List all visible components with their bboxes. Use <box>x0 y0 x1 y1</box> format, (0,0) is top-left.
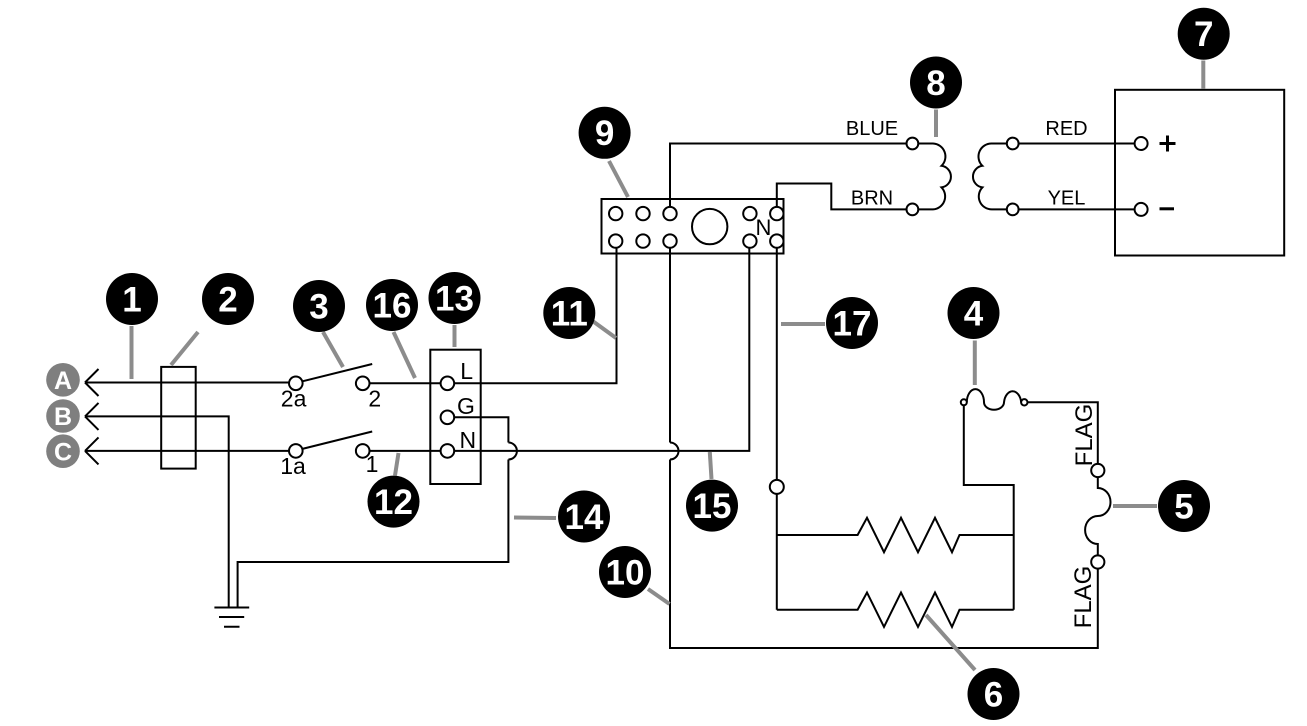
svg-text:16: 16 <box>373 286 412 325</box>
svg-text:C: C <box>54 438 72 466</box>
svg-text:1a: 1a <box>280 453 306 479</box>
svg-text:15: 15 <box>693 487 732 526</box>
svg-text:10: 10 <box>606 553 645 592</box>
svg-text:FLAG: FLAG <box>1071 404 1098 467</box>
svg-text:17: 17 <box>833 304 872 343</box>
svg-text:2: 2 <box>368 386 381 412</box>
svg-text:A: A <box>54 367 72 395</box>
svg-text:YEL: YEL <box>1048 188 1086 210</box>
svg-text:N: N <box>756 215 772 240</box>
svg-text:2a: 2a <box>281 386 307 412</box>
svg-text:BRN: BRN <box>851 188 893 210</box>
svg-text:3: 3 <box>309 287 328 326</box>
svg-text:11: 11 <box>551 294 588 333</box>
svg-text:G: G <box>457 393 475 419</box>
svg-text:12: 12 <box>374 483 413 522</box>
svg-text:RED: RED <box>1045 118 1087 140</box>
svg-text:5: 5 <box>1174 487 1193 526</box>
svg-text:BLUE: BLUE <box>846 118 898 140</box>
svg-text:2: 2 <box>218 280 237 319</box>
svg-text:FLAG: FLAG <box>1070 566 1097 629</box>
svg-text:L: L <box>460 358 473 384</box>
svg-text:B: B <box>54 403 72 431</box>
svg-text:14: 14 <box>565 498 604 537</box>
svg-text:N: N <box>459 427 476 453</box>
svg-text:6: 6 <box>984 675 1003 714</box>
svg-text:8: 8 <box>926 64 945 103</box>
svg-text:13: 13 <box>435 279 474 318</box>
svg-text:1: 1 <box>122 280 141 319</box>
svg-text:4: 4 <box>964 294 984 333</box>
svg-text:9: 9 <box>595 114 614 153</box>
svg-text:7: 7 <box>1194 15 1213 54</box>
svg-text:1: 1 <box>366 451 379 477</box>
